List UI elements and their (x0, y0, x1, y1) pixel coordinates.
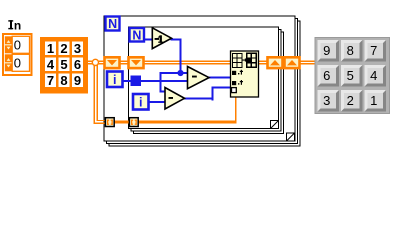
svg-text:i: i (139, 96, 142, 110)
svg-text:N: N (108, 17, 117, 31)
svg-text:1: 1 (370, 93, 377, 108)
svg-text:8: 8 (60, 73, 67, 88)
svg-text:0: 0 (14, 37, 21, 52)
svg-text:6: 6 (74, 57, 81, 72)
svg-text:3: 3 (323, 93, 330, 108)
svg-text:4: 4 (47, 57, 55, 72)
svg-text:1: 1 (47, 41, 54, 56)
svg-text:4: 4 (370, 68, 377, 83)
svg-text:7: 7 (47, 73, 54, 88)
svg-text:N: N (132, 28, 141, 42)
svg-text:2: 2 (60, 41, 67, 56)
svg-text:7: 7 (370, 43, 377, 58)
svg-text:3: 3 (74, 41, 81, 56)
svg-text:8: 8 (347, 43, 354, 58)
svg-text:0: 0 (14, 55, 21, 70)
svg-text:n: n (14, 18, 21, 32)
svg-text:5: 5 (60, 57, 67, 72)
svg-text:6: 6 (323, 68, 330, 83)
svg-text:2: 2 (347, 93, 354, 108)
svg-text:9: 9 (74, 73, 81, 88)
svg-text:5: 5 (347, 68, 354, 83)
svg-text:9: 9 (323, 43, 330, 58)
svg-text:i: i (113, 73, 116, 87)
